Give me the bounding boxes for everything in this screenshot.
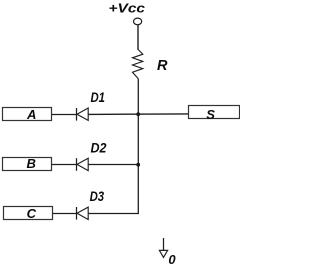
svg-text:A: A [26,107,36,122]
node junction dot row A [136,112,140,116]
svg-text:D1: D1 [91,89,106,105]
Vcc terminal circle [134,18,142,25]
ground triangle [159,250,167,257]
diode D2 cathode bar [76,158,78,171]
diode D2 triangle [77,158,88,170]
ground stem [163,238,165,250]
svg-text:D3: D3 [90,188,105,204]
svg-text:C: C [27,206,37,221]
wire A to D1 [52,114,76,116]
diode D1 cathode bar [76,108,78,121]
input box B [3,158,52,171]
diode D1 triangle [77,108,88,120]
svg-text:+Vcc: +Vcc [109,0,146,15]
resistor R [133,50,143,79]
wire D2 to bus [88,164,138,166]
input box C [4,207,53,220]
wire B to D2 [52,164,76,166]
diode D3 cathode bar [76,207,78,220]
svg-text:B: B [27,156,36,171]
svg-text:S: S [206,107,215,122]
diode D3 triangle [77,207,88,219]
wire C to D3 [53,213,76,215]
output box S [189,106,240,119]
svg-text:R: R [157,58,168,74]
svg-text:0: 0 [168,252,176,267]
svg-text:D2: D2 [91,139,107,155]
wire vertical bus from resistor to corner, then left to D3 [88,79,138,214]
wire D1 to node to S [88,113,188,116]
node junction dot row B [136,163,140,167]
wire Vcc to resistor [137,25,139,50]
input box A [3,108,52,121]
